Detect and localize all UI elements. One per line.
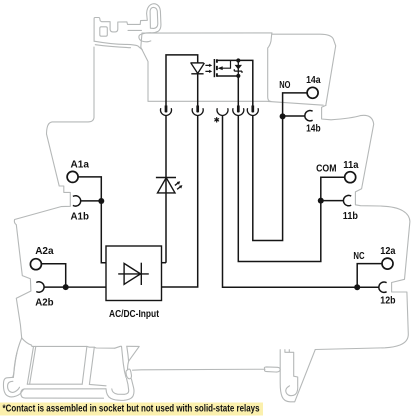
socket contact tulip 1 [161, 108, 172, 115]
AC/DC-Input box U2 [106, 246, 162, 301]
junction node NC [354, 284, 360, 290]
clip square hole [100, 27, 108, 36]
relay pin 2 [196, 106, 199, 113]
wire NC net tulip3 to 12b [223, 115, 380, 287]
wire NO net tulip5 to 14a [253, 93, 307, 241]
foot panel 1 bottom edge [27, 383, 82, 385]
wire COM net tulip4 to 11a [238, 115, 344, 261]
relay pin 5 [251, 106, 254, 113]
svg-text:COM: COM [316, 164, 336, 175]
middle rail clip boot outline [106, 379, 134, 400]
housing bottom-left edge to foot [13, 338, 21, 377]
svg-text:A2a: A2a [35, 246, 54, 257]
DIN-rail edge line with catch pocket [133, 367, 281, 372]
wire A1a to node A1 [78, 177, 106, 263]
wire A2b to AC/DC box left [44, 286, 106, 288]
opto light arrows [205, 64, 212, 73]
svg-text:12a: 12a [380, 246, 395, 257]
wire relay input loop pin1 to opto LED [166, 55, 198, 113]
relay body top edge [142, 32, 272, 34]
svg-text:12b: 12b [380, 296, 395, 307]
wire Q1 source rail to pin4 [217, 76, 238, 113]
wire tulip1 to AC/DC box right top [165, 115, 167, 262]
junction node Z1 bottom [236, 74, 240, 78]
svg-text:11a: 11a [343, 160, 358, 171]
terminal 14b hook [305, 111, 313, 121]
svg-text:NO: NO [279, 80, 290, 91]
MOSFET Q1 gate bar [213, 59, 215, 77]
svg-text:11b: 11b [343, 211, 358, 222]
wire tulip2 to AC/DC box right bottom [162, 115, 198, 287]
svg-text:14a: 14a [306, 75, 321, 86]
wire node NC to 12a [357, 264, 382, 288]
wire stub into box right top [162, 262, 167, 264]
right rail clip outline [280, 350, 315, 402]
middle rail clip lip pocket [126, 369, 132, 379]
terminal 14a [307, 87, 318, 98]
terminal A1b hook [73, 196, 81, 206]
socket contact tulip 2 [192, 108, 203, 115]
wire node NO to 14b [283, 115, 306, 117]
terminal 12b hook [379, 282, 387, 292]
terminal A1a [67, 171, 78, 182]
housing right side edge with 14b 11b 12b notches [315, 105, 410, 349]
zener diode Z1 [234, 60, 242, 76]
junction node Z1 top [236, 58, 240, 62]
footnote text [3, 404, 260, 415]
junction node A1 [98, 198, 104, 204]
svg-text:A2b: A2b [35, 298, 53, 309]
indicator LED D2 [156, 178, 176, 193]
wire A1b to node A1 [80, 200, 101, 202]
terminal 11a [345, 172, 356, 183]
svg-text:AC/DC-Input: AC/DC-Input [109, 309, 159, 320]
svg-text:A1a: A1a [71, 159, 90, 170]
terminal 11b hook [343, 195, 351, 205]
svg-text:14b: 14b [306, 124, 321, 135]
socket contact tulip 5 [247, 108, 258, 115]
housing left side edge with A1b A2b notches [14, 47, 94, 338]
relay body left edge [141, 33, 148, 101]
terminal A2b hook [36, 282, 44, 292]
housing divider line [268, 33, 272, 101]
middle rail clip neck [115, 346, 126, 377]
clip arm inner line [128, 29, 142, 31]
asterisk marker at unused contact [215, 118, 219, 122]
foot top sloped edge [22, 338, 115, 348]
relay body bottom edge [148, 100, 268, 102]
foot strut 1 [27, 346, 36, 384]
middle rail clip boot inner line [112, 379, 129, 395]
junction node NO [280, 113, 286, 119]
socket contact tulip 3 unused [217, 108, 228, 115]
svg-text:*Contact is assembled in socke: *Contact is assembled in socket but not … [3, 404, 260, 415]
terminal 12a [382, 258, 393, 269]
foot panel 2 bottom edge [89, 384, 106, 385]
foot base slot [21, 389, 106, 398]
housing top-right section edge [272, 34, 336, 105]
svg-text:A1b: A1b [71, 211, 89, 222]
wire node COM to 11b [321, 200, 344, 202]
housing top-right section bottom edge [268, 101, 323, 105]
socket contact tulip 4 [233, 108, 244, 115]
MOSFET Q1 channel segments [216, 59, 218, 76]
rectifier diode D3 [118, 263, 149, 285]
right rail clip notch [288, 350, 290, 352]
clip lever inner contour [150, 7, 158, 28]
clip bottom edge [94, 41, 142, 50]
svg-text:NC: NC [353, 251, 365, 262]
terminal A2a [30, 259, 41, 270]
footnote highlight band [0, 403, 263, 416]
DIN-rail hook inner line [13, 353, 17, 378]
wire A2a to node A2 [41, 264, 65, 287]
indicator LED light flashes [175, 181, 183, 189]
middle rail clip wedge [127, 346, 139, 361]
relay pin 1 [165, 106, 168, 113]
junction node A2 [63, 284, 69, 290]
clip inner bar [95, 45, 130, 48]
right rail clip inner step [285, 350, 298, 396]
junction node COM [318, 198, 324, 204]
housing release-clip lever outline [94, 4, 161, 42]
opto LED D1 [190, 63, 204, 74]
wire Q1 drain rail to pin5 [217, 60, 253, 112]
wire opto LED cathode to pin2 [197, 74, 199, 113]
foot strut 2 [82, 346, 94, 384]
relay pin 4 [237, 106, 240, 113]
middle rail clip throat [128, 361, 129, 370]
MOSFET Q1 body arrow [218, 60, 231, 70]
middle rail clip spring line [127, 346, 129, 361]
DIN-rail hook inner curl [8, 381, 20, 392]
DIN-rail hook outline [3, 377, 24, 397]
